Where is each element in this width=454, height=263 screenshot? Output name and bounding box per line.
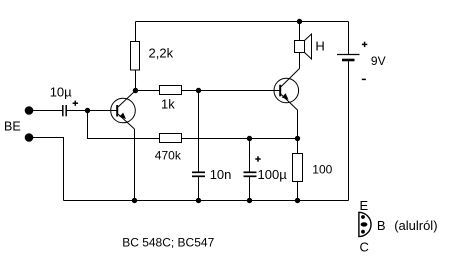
label battery polarity + (362, 42, 367, 47)
resistor R1 2,2k (131, 42, 140, 71)
capacitor C2 10n (192, 172, 205, 176)
resistor R3 470k (160, 134, 182, 143)
wire Q2 emitter down (297, 110, 299, 139)
wire feedback left (Q1 base down and right) (88, 111, 161, 139)
node speaker top junction (297, 19, 301, 23)
transistor package outline (view from below) (359, 212, 371, 236)
wire R4 bottom lead (297, 181, 299, 201)
node Q1 emitter ground junction (132, 198, 136, 202)
wire C2 bottom lead (198, 177, 200, 201)
wire C1 to Q1 base (67, 110, 117, 112)
pin dot E (361, 215, 365, 219)
label C1 polarity + (73, 101, 78, 106)
wire input top (29, 110, 62, 112)
label battery polarity - (362, 78, 366, 80)
wire feedback right (R3 to Q2 emitter) (182, 138, 298, 140)
capacitor C1 10u (63, 105, 66, 116)
capacitor C3 100u (244, 172, 257, 176)
node C3 ground junction (247, 198, 251, 202)
wire battery positive lead (348, 22, 350, 55)
svg-text:BE: BE (4, 119, 21, 133)
battery BT1 negative plate (342, 59, 355, 62)
svg-text:B: B (377, 218, 386, 233)
svg-text:E: E (360, 198, 369, 213)
speaker H (295, 34, 312, 59)
pin dot B (361, 222, 368, 226)
wire Q1 emitter to ground (134, 129, 136, 201)
node BE input bottom terminal (25, 134, 33, 142)
node C2 ground junction (196, 198, 200, 202)
resistor R2 1k (160, 86, 182, 95)
wire C3 bottom lead (249, 177, 251, 201)
node R1/R2/Q1 collector junction (133, 88, 137, 92)
node Q1 base junction (85, 108, 89, 112)
svg-text:BC 548C; BC547: BC 548C; BC547 (122, 235, 214, 249)
node A (R2 / C2 / Q2 base) (196, 88, 200, 92)
wire input bottom (29, 138, 64, 201)
wire bottom rail (64, 200, 349, 202)
battery BT1 positive plate (337, 54, 360, 56)
svg-text:H: H (315, 39, 324, 54)
svg-text:100µ: 100µ (258, 167, 288, 182)
svg-text:(alulról): (alulról) (394, 218, 437, 233)
node BE input top terminal (25, 107, 33, 115)
wire R1 top lead (135, 22, 137, 42)
wire R2 to node A (182, 90, 199, 92)
svg-text:9V: 9V (371, 54, 386, 68)
wire C3 top lead (249, 139, 251, 172)
svg-text:C: C (360, 240, 369, 255)
svg-text:2,2k: 2,2k (149, 45, 174, 60)
wire Q2 collector to speaker (299, 53, 301, 69)
transistor Q2 (274, 69, 300, 111)
wire R4 top lead (297, 139, 299, 154)
node R4 ground junction (295, 198, 299, 202)
wire battery negative lead (348, 61, 350, 200)
wire top rail (136, 21, 349, 23)
svg-text:100: 100 (312, 162, 332, 176)
pin dot C (361, 230, 365, 234)
wire R1 to R2 (136, 90, 160, 92)
wire R1 bottom lead (135, 70, 137, 91)
label C3 polarity + (255, 156, 260, 161)
svg-text:10n: 10n (210, 167, 232, 182)
svg-text:10µ: 10µ (50, 84, 72, 99)
wire node A to Q2 base (199, 90, 281, 92)
svg-text:470k: 470k (155, 149, 182, 163)
resistor R4 100 (293, 154, 303, 182)
transistor Q1 (111, 91, 136, 130)
wire C2 top lead (198, 91, 200, 172)
wire speaker top lead (299, 22, 301, 41)
svg-text:1k: 1k (161, 96, 175, 111)
node Q2 emitter junction (295, 136, 299, 140)
node C3 top junction (247, 136, 251, 140)
